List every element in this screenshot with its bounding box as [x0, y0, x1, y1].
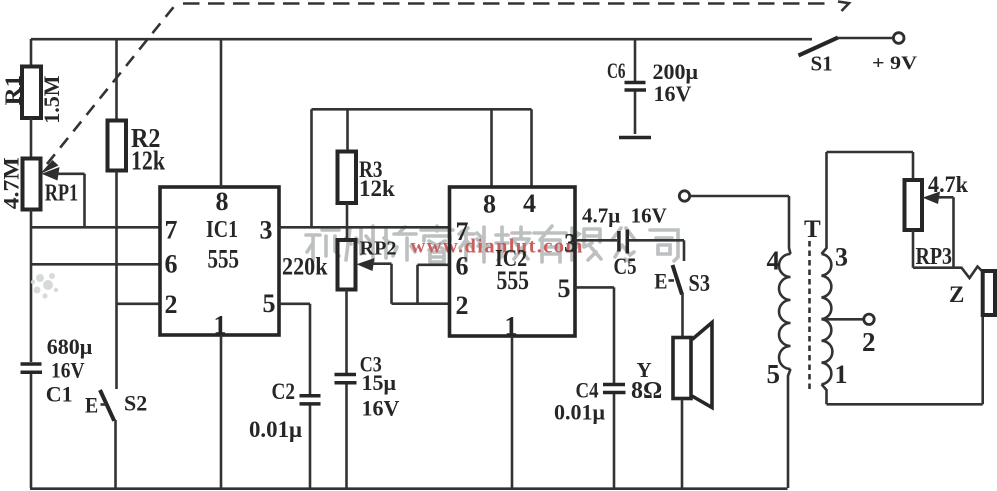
svg-text:C2: C2 [272, 379, 296, 404]
capacitor C1 [21, 364, 43, 488]
wire IC2 pin5 to C4 [575, 287, 614, 383]
resistor R3 [338, 109, 357, 240]
wire RP1 wiper arm [42, 167, 85, 227]
svg-text:2: 2 [165, 290, 178, 319]
svg-text:S1: S1 [811, 52, 833, 76]
op-amp U1 IC1 555 box [160, 187, 279, 335]
svg-text:IC1: IC1 [206, 217, 238, 243]
wire secondary bottom to Z [827, 315, 983, 404]
svg-text:C1: C1 [46, 382, 73, 407]
svg-text:RP1: RP1 [45, 181, 78, 207]
svg-text:4: 4 [767, 246, 781, 276]
svg-text:+ 9V: + 9V [872, 53, 917, 74]
potentiometer RP2 [338, 240, 356, 290]
svg-text:R1: R1 [0, 75, 25, 106]
transformer T primary winding [779, 196, 791, 488]
jack Z [983, 271, 995, 315]
wire IC2 supply branch top [312, 109, 532, 227]
wire IC1 pin8 stub [220, 39, 223, 187]
svg-text:16V: 16V [51, 358, 85, 383]
watermark xian char [572, 228, 601, 260]
resistor R1 [22, 39, 41, 159]
svg-text:3: 3 [564, 229, 577, 258]
watermark gong char [612, 228, 635, 262]
op-amp U2 IC2 555 box [450, 187, 576, 336]
svg-text:T: T [804, 216, 821, 243]
svg-text:4: 4 [523, 189, 536, 218]
wire left rail below RP1 [30, 210, 33, 363]
svg-text:8: 8 [216, 187, 229, 216]
svg-text:1: 1 [214, 311, 227, 340]
svg-text:7: 7 [456, 217, 469, 246]
watermark si char [650, 230, 678, 261]
wire mechanical link dashed horizontal to S1 [183, 2, 830, 5]
wire RP3 wiper arm [923, 192, 954, 268]
svg-text:0.01μ: 0.01μ [249, 417, 302, 442]
node terminal to transformer [679, 191, 789, 201]
transformer T secondary winding [822, 152, 833, 404]
svg-text:S3: S3 [689, 271, 711, 297]
svg-text:5: 5 [558, 274, 571, 303]
svg-text:Z: Z [949, 282, 964, 307]
wire IC1 pin3 to IC2 pin7 [279, 226, 450, 229]
svg-text:16V: 16V [654, 81, 692, 106]
wire top supply rail [31, 38, 812, 41]
svg-text:220k: 220k [282, 254, 328, 281]
wire IC2 pin1 stub [511, 336, 514, 488]
watermark jiang char [384, 227, 416, 260]
watermark hang char [306, 230, 339, 261]
wire E dash S3 [669, 279, 675, 282]
watermark rui char [421, 226, 453, 262]
svg-text:3: 3 [260, 216, 273, 245]
svg-text:5: 5 [263, 289, 276, 318]
transformer core dashed [808, 241, 811, 393]
wire IC2 pin2 link [392, 302, 450, 305]
svg-text:E: E [654, 269, 667, 294]
svg-text:8Ω: 8Ω [631, 378, 662, 404]
wire RP2 bottom to C3 [345, 290, 348, 374]
svg-text:2: 2 [862, 327, 876, 357]
switch S1 [799, 33, 905, 56]
svg-text:RP2: RP2 [360, 238, 397, 260]
wire mechanical link dashed diagonal from RP1 [47, 4, 176, 164]
svg-text:555: 555 [208, 245, 240, 274]
svg-text:8: 8 [483, 190, 496, 219]
svg-text:1.5M: 1.5M [39, 75, 64, 124]
svg-text:3: 3 [835, 243, 848, 272]
capacitor C2 [300, 396, 321, 488]
watermark zhou char [346, 226, 373, 261]
svg-text:4.7k: 4.7k [928, 172, 968, 197]
capacitor C3 [335, 375, 357, 489]
svg-text:5: 5 [767, 359, 781, 389]
wire IC2 pin3 out [575, 239, 617, 242]
potentiometer RP1 [23, 159, 41, 210]
svg-text:0.01μ: 0.01μ [554, 400, 606, 425]
wire mechanical link arrow at S1 [838, 2, 849, 12]
svg-text:2: 2 [456, 291, 469, 320]
potentiometer RP3 [905, 180, 923, 230]
svg-text:S2: S2 [124, 391, 147, 416]
resistor R2 [108, 39, 127, 389]
svg-text:6: 6 [165, 250, 178, 279]
svg-text:1: 1 [835, 360, 848, 389]
node center tap terminal 2 [822, 314, 875, 324]
wire IC1 pin1 stub [220, 335, 223, 488]
switch S2 [100, 390, 116, 488]
wire IC2 pin6 link [418, 265, 450, 304]
wire E dash S2 [101, 403, 107, 406]
speaker Y [673, 323, 712, 489]
svg-text:4.7M: 4.7M [0, 157, 23, 209]
capacitor C5 [619, 230, 684, 254]
wire node row pin2 IC1 [117, 302, 161, 305]
svg-text:E: E [85, 393, 98, 418]
svg-text:RP3: RP3 [916, 244, 953, 270]
capacitor C4 [603, 385, 626, 489]
svg-text:4.7μ 16V: 4.7μ 16V [582, 204, 667, 228]
svg-text:7: 7 [165, 216, 178, 245]
wire IC1 pin5 to C2 [279, 304, 310, 394]
svg-text:12k: 12k [359, 176, 395, 201]
svg-text:555: 555 [497, 266, 530, 295]
wire node row pin6 IC1 [31, 263, 160, 266]
capacitor C6 [619, 39, 651, 138]
watermark ji char [496, 227, 530, 260]
wire RP3 top link [827, 152, 914, 180]
wire node row pin7 IC1 [31, 226, 160, 229]
wire bottom ground bus [30, 487, 788, 490]
svg-text:16V: 16V [362, 396, 400, 421]
wire mechanical link arrowhead at RP1 [40, 160, 59, 174]
svg-text:1: 1 [505, 312, 518, 341]
svg-text:C6: C6 [607, 58, 626, 83]
svg-text:15μ: 15μ [362, 370, 397, 395]
artifact smudge [31, 273, 58, 299]
watermark you char [534, 226, 566, 262]
svg-text:6: 6 [456, 252, 469, 281]
svg-text:12k: 12k [131, 146, 165, 176]
wire RP3 bottom to Z [913, 230, 983, 278]
svg-text:C5: C5 [614, 254, 637, 279]
svg-text:680μ: 680μ [47, 334, 93, 359]
wire RP2 wiper arm [357, 258, 392, 304]
switch S3 [673, 240, 685, 337]
watermark ke char [459, 227, 489, 262]
